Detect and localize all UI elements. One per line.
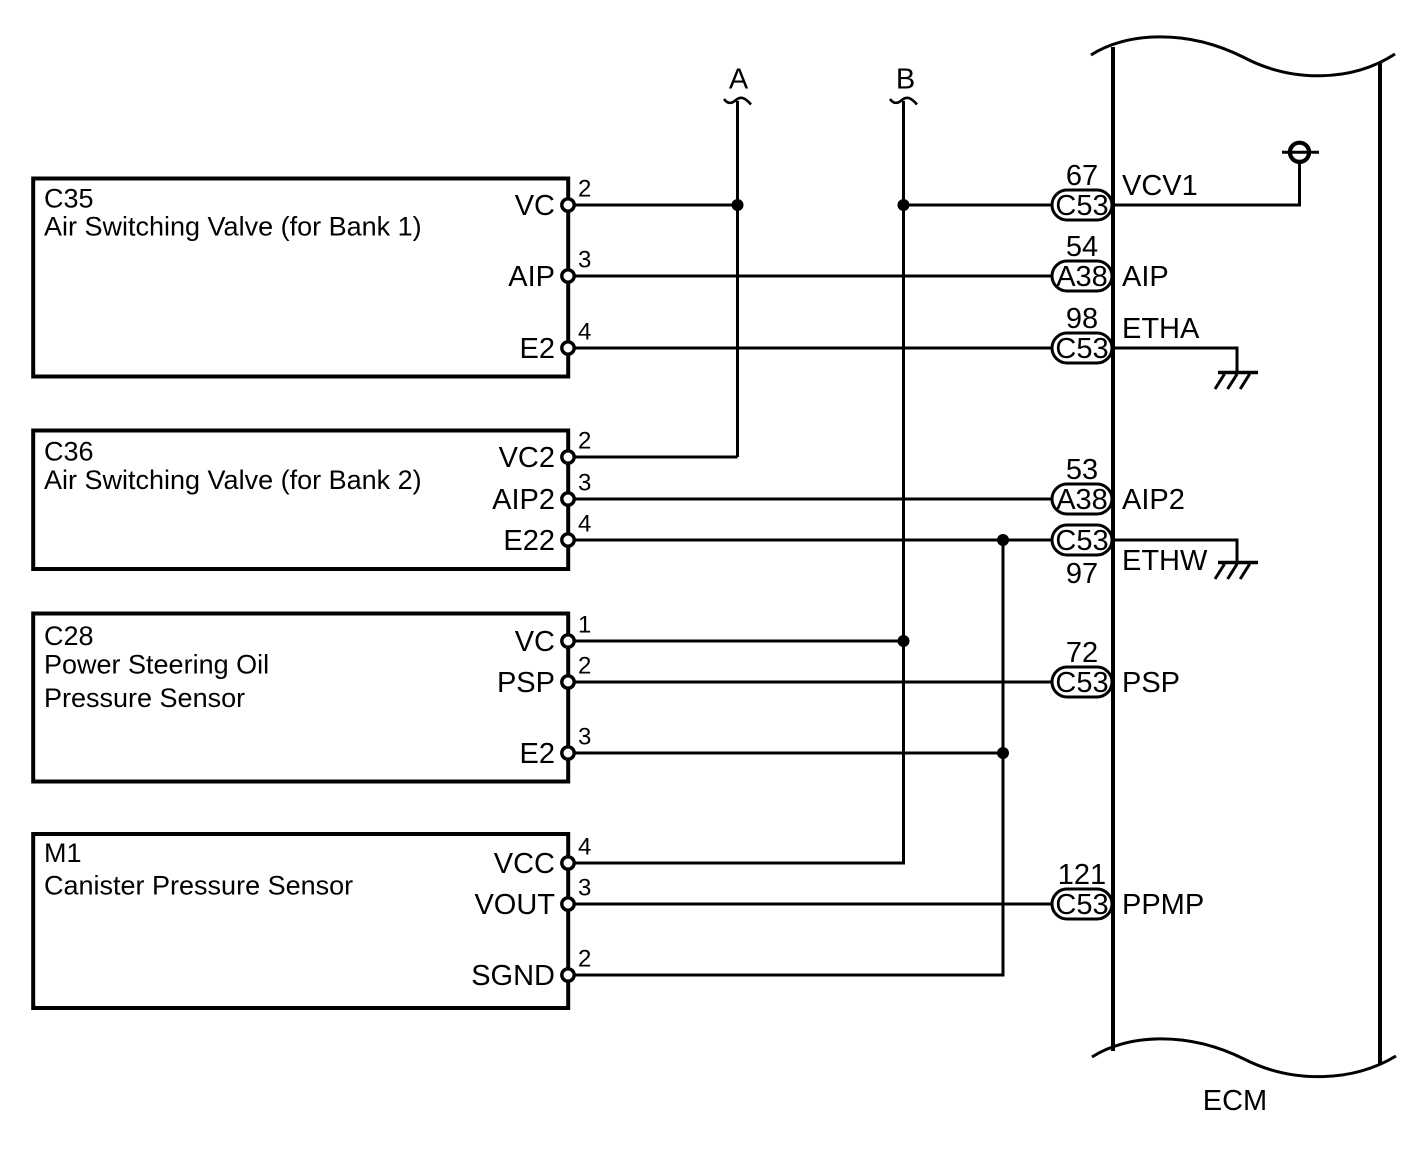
junction dot node B / VC C28	[898, 635, 910, 647]
pin SGND M1	[562, 969, 574, 981]
ground symbol ETHA	[1215, 373, 1258, 390]
wire ETHW to ground	[1113, 540, 1237, 562]
pin E2 C28	[562, 747, 574, 759]
pin AIP C35	[562, 270, 574, 282]
svg-text:ECM: ECM	[1203, 1085, 1267, 1117]
svg-text:A38: A38	[1056, 261, 1108, 293]
wire E2(C35) pin4 to ECM C53 pin 98	[568, 347, 1052, 350]
svg-text:PSP: PSP	[497, 667, 555, 699]
svg-text:ETHA: ETHA	[1122, 313, 1200, 345]
wire VCV1 inside ECM to terminal	[1113, 160, 1300, 205]
svg-text:2: 2	[578, 946, 591, 973]
svg-text:67: 67	[1066, 160, 1098, 192]
svg-text:97: 97	[1066, 558, 1098, 590]
svg-text:98: 98	[1066, 303, 1098, 335]
svg-text:AIP2: AIP2	[492, 484, 555, 516]
svg-text:ETHW: ETHW	[1122, 545, 1208, 577]
svg-text:C53: C53	[1055, 190, 1108, 222]
wire AIP2(C36) pin3 to ECM A38 pin 53	[568, 498, 1052, 501]
svg-text:3: 3	[578, 470, 591, 497]
svg-text:C53: C53	[1055, 889, 1108, 921]
connector break symbol A	[724, 98, 751, 105]
svg-text:VC: VC	[515, 190, 555, 222]
ECM connector C53 pin 97	[1052, 525, 1112, 555]
svg-text:SGND: SGND	[471, 960, 555, 992]
wire VC(C28) pin1 to node B	[568, 640, 904, 643]
wire vertical net B	[568, 101, 904, 863]
svg-text:E2: E2	[520, 333, 555, 365]
wire E2(C28) pin3 to sensor ground net	[568, 752, 1003, 755]
pin VCC M1	[562, 857, 574, 869]
wire PSP(C28) pin2 to ECM C53 pin 72	[568, 681, 1052, 684]
pin VC C28	[562, 635, 574, 647]
pin VOUT M1	[562, 898, 574, 910]
svg-text:1: 1	[578, 612, 591, 639]
svg-text:3: 3	[578, 247, 591, 274]
svg-text:Air Switching Valve (for Bank: Air Switching Valve (for Bank 2)	[44, 465, 422, 495]
svg-text:53: 53	[1066, 454, 1098, 486]
ECM connector C53 pin 98	[1052, 333, 1112, 363]
ECM connector A38 pin 53	[1052, 484, 1112, 514]
svg-text:VC2: VC2	[499, 442, 555, 474]
ECM connector C53 pin 67	[1052, 190, 1112, 220]
svg-text:72: 72	[1066, 637, 1098, 669]
svg-text:C53: C53	[1055, 525, 1108, 557]
device box C28	[33, 614, 568, 782]
pin E2 C35	[562, 342, 574, 354]
pin VC C35	[562, 199, 574, 211]
svg-text:C35: C35	[44, 184, 94, 214]
device box M1	[33, 834, 568, 1008]
wire E22(C36) pin4 to ECM C53 pin 97	[568, 539, 1052, 542]
svg-text:4: 4	[578, 511, 591, 538]
svg-text:4: 4	[578, 834, 591, 861]
svg-text:3: 3	[578, 875, 591, 902]
svg-text:AIP: AIP	[1122, 261, 1169, 293]
svg-text:VCV1: VCV1	[1122, 170, 1198, 202]
svg-text:2: 2	[578, 428, 591, 455]
svg-text:Power Steering Oil: Power Steering Oil	[44, 650, 269, 680]
svg-text:2: 2	[578, 653, 591, 680]
ECM connector C53 pin 121	[1052, 889, 1112, 919]
svg-text:C28: C28	[44, 621, 94, 651]
pin E22 C36	[562, 534, 574, 546]
svg-text:VCC: VCC	[494, 848, 555, 880]
svg-text:4: 4	[578, 319, 591, 346]
ECM bottom wavy edge	[1092, 1039, 1396, 1077]
svg-text:B: B	[896, 64, 915, 96]
svg-text:121: 121	[1058, 859, 1106, 891]
terminal circle VCV1	[1290, 143, 1309, 162]
pin PSP C28	[562, 676, 574, 688]
svg-text:A: A	[729, 64, 749, 96]
ground symbol ETHW	[1215, 563, 1258, 580]
ECM top wavy edge	[1091, 37, 1395, 76]
terminal crossbar VCV1	[1282, 151, 1319, 154]
svg-text:3: 3	[578, 724, 591, 751]
svg-text:M1: M1	[44, 838, 82, 868]
pin VC2 C36	[562, 451, 574, 463]
svg-text:AIP: AIP	[508, 261, 555, 293]
svg-text:A38: A38	[1056, 484, 1108, 516]
svg-text:VC: VC	[515, 626, 555, 658]
svg-text:E22: E22	[503, 525, 555, 557]
svg-text:2: 2	[578, 176, 591, 203]
ECM connector C53 pin 72	[1052, 667, 1112, 697]
svg-text:C53: C53	[1055, 333, 1108, 365]
connector break symbol B	[890, 98, 917, 105]
device box C35	[33, 179, 568, 377]
ECM connector A38 pin 54	[1052, 261, 1112, 291]
ECM right border	[1378, 62, 1382, 1064]
svg-text:PPMP: PPMP	[1122, 889, 1204, 921]
wire VC(C35) pin2 to node A	[568, 204, 738, 207]
svg-text:C36: C36	[44, 437, 94, 467]
wire ETHA to ground	[1113, 348, 1237, 372]
wire AIP(C35) pin3 to ECM A38 pin 54	[568, 275, 1052, 278]
junction dot E2 C28 / sensor ground net	[997, 747, 1009, 759]
ECM left border	[1111, 47, 1115, 1051]
junction dot ETHW / sensor ground net	[997, 534, 1009, 546]
svg-text:C53: C53	[1055, 667, 1108, 699]
svg-text:54: 54	[1066, 231, 1098, 263]
wire VOUT(M1) pin3 to ECM C53 pin 121	[568, 903, 1052, 906]
svg-text:Canister Pressure Sensor: Canister Pressure Sensor	[44, 871, 353, 901]
device box C36	[33, 431, 568, 570]
svg-text:VOUT: VOUT	[474, 889, 555, 921]
svg-text:E2: E2	[520, 738, 555, 770]
wire vertical net A	[736, 101, 739, 457]
junction dot node B / VC	[898, 199, 910, 211]
wire VC2(C36) pin2 to node A	[568, 456, 738, 459]
svg-text:AIP2: AIP2	[1122, 484, 1185, 516]
svg-text:PSP: PSP	[1122, 667, 1180, 699]
svg-text:Pressure Sensor: Pressure Sensor	[44, 683, 245, 713]
wire vertical sensor ground net	[568, 540, 1003, 975]
wire node B to ECM C53 pin 67	[904, 204, 1053, 207]
junction dot node A / VC	[732, 199, 744, 211]
pin AIP2 C36	[562, 493, 574, 505]
svg-text:Air Switching Valve (for Bank: Air Switching Valve (for Bank 1)	[44, 212, 422, 242]
